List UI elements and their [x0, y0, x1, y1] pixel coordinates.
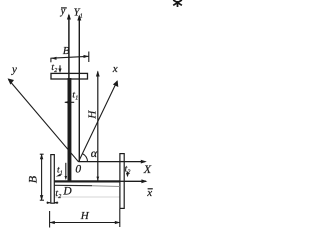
svg-text:B: B — [26, 175, 40, 183]
svg-text:B: B — [63, 45, 70, 57]
svg-text:0: 0 — [75, 163, 81, 175]
svg-text:H: H — [80, 210, 90, 222]
svg-text:1: 1 — [75, 96, 78, 102]
svg-text:H: H — [87, 110, 99, 120]
svg-text:2: 2 — [127, 169, 130, 175]
svg-text:2: 2 — [58, 194, 61, 200]
svg-text:α: α — [91, 146, 98, 160]
svg-text:1: 1 — [60, 171, 63, 177]
svg-text:D: D — [62, 185, 72, 197]
svg-text:1: 1 — [80, 14, 83, 20]
svg-text:x: x — [112, 63, 118, 75]
svg-text:y: y — [11, 64, 17, 76]
svg-text:2: 2 — [54, 68, 57, 74]
svg-text:X: X — [143, 162, 152, 176]
